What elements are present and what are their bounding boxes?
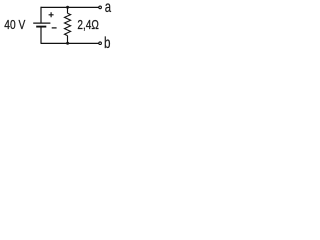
battery V1 short plate (36, 26, 46, 28)
battery minus sign (52, 27, 57, 29)
svg-text:a: a (105, 0, 111, 16)
junction dot bottom (66, 42, 69, 45)
battery V1 long plate (33, 22, 50, 24)
svg-text:b: b (104, 35, 111, 50)
wire bottom rail (41, 42, 99, 44)
resistor R1 zigzag (65, 13, 71, 35)
wire left branch lower (40, 26, 42, 43)
wire resistor top lead (67, 7, 69, 13)
terminal circle b (99, 42, 102, 45)
wire top rail (41, 6, 99, 8)
wire left branch upper (40, 7, 42, 23)
junction dot top (66, 6, 69, 9)
svg-text:2,4Ω: 2,4Ω (77, 17, 99, 32)
terminal circle a (99, 6, 102, 9)
svg-text:40 V: 40 V (4, 17, 25, 32)
wire resistor bottom lead (67, 36, 69, 44)
battery plus sign (49, 12, 54, 17)
